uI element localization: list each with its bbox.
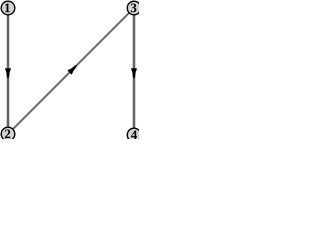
arrowhead on edge 3->4 [131, 68, 137, 79]
node 3 label [131, 3, 137, 12]
node 4 label [131, 131, 137, 140]
node 4 (circle) [127, 128, 141, 142]
wire: edge 3->4 (right vertical) [132, 8, 135, 134]
wire: edge 2->3 (diagonal) [8, 8, 134, 134]
node 2 (circle) [1, 127, 15, 141]
node 1 (circle) [1, 1, 15, 15]
node 3 (circle) [127, 1, 141, 15]
wire: edge 1->2 (left vertical) [6, 8, 9, 134]
node 2 label [5, 129, 10, 138]
node 1 label [5, 4, 10, 13]
arrowhead on edge 1->2 [5, 68, 11, 79]
arrowhead on edge 2->3 [67, 63, 79, 75]
